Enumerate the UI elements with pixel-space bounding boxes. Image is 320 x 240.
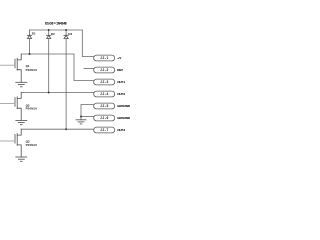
svg-text:D2: D2 [51, 32, 55, 36]
svg-text:J2-7: J2-7 [100, 128, 108, 132]
ground Q1 [16, 82, 27, 87]
svg-text:J2-4: J2-4 [100, 92, 108, 96]
svg-text:P20N10: P20N10 [26, 143, 38, 147]
svg-text:P20N10: P20N10 [26, 106, 38, 110]
diode D2 [48, 30, 50, 35]
ground right [76, 120, 86, 124]
svg-text:J2-5: J2-5 [100, 104, 108, 108]
wire KEY stub [84, 68, 94, 70]
connector J2-4 [94, 91, 115, 97]
svg-text:D1-D3 = 1N4148: D1-D3 = 1N4148 [45, 21, 67, 25]
junction dot ground tap [80, 116, 82, 118]
connector J2-3 [94, 79, 115, 85]
diode D1 [29, 30, 31, 35]
wire J2-6 ground tap [81, 116, 94, 118]
junction dot D3 rail3 [65, 128, 67, 130]
svg-text:J2-2: J2-2 [100, 68, 108, 72]
svg-text:GROUND: GROUND [117, 116, 131, 120]
transistor Q1 [15, 54, 21, 82]
connector J2-7 [94, 127, 115, 133]
wire top +V rail [30, 29, 83, 31]
svg-text:KEY: KEY [117, 68, 124, 72]
wire Q1 drain rail to OUT 1 [21, 54, 94, 81]
wire Q3 drain rail to OUT 3 [21, 128, 94, 130]
connector J2-5 [94, 103, 115, 109]
wire +V drop to J2-1 [82, 30, 93, 57]
svg-text:P20N10: P20N10 [26, 68, 38, 72]
svg-text:GROUND: GROUND [117, 104, 131, 108]
transistor Q3 [15, 129, 21, 157]
transistor Q2 [15, 93, 21, 121]
svg-text:OUT 2: OUT 2 [117, 92, 125, 96]
junction dot D2 rail2 [48, 92, 50, 94]
ground Q2 [16, 120, 27, 124]
connector J2-2 [94, 67, 115, 73]
svg-text:OUT 1: OUT 1 [117, 80, 125, 84]
junction dot D1 rail1 [29, 53, 31, 55]
wire J2-5 ground drop [81, 105, 94, 120]
connector J2-6 [94, 115, 115, 121]
junction dot D2 top [48, 29, 50, 31]
connector J2-1 [94, 55, 115, 61]
svg-text:OUT 3: OUT 3 [117, 128, 125, 132]
junction dot D3 top [65, 29, 67, 31]
svg-text:J2-3: J2-3 [100, 80, 108, 84]
svg-text:J2-1: J2-1 [100, 56, 108, 60]
svg-text:D3: D3 [68, 32, 72, 36]
svg-text:D1: D1 [32, 32, 36, 36]
wire Q2 drain rail to OUT 2 [21, 92, 94, 94]
ground Q3 [16, 157, 27, 161]
svg-text:J2-6: J2-6 [100, 116, 108, 120]
diode D3 [65, 30, 67, 35]
